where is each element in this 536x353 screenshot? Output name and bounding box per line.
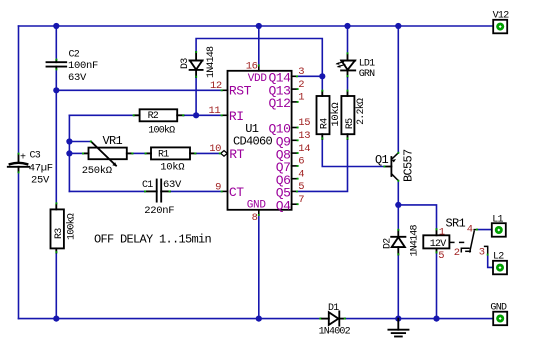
svg-text:4: 4: [467, 224, 473, 236]
wire VR1 wiper: [69, 141, 91, 143]
svg-text:L2: L2: [493, 251, 504, 262]
wire D3 top branch: [196, 39, 322, 77]
wire CT row right of C1: [170, 190, 222, 192]
wire relay contact 3 to L2: [488, 255, 493, 268]
svg-text:Q4: Q4: [276, 198, 291, 213]
wire top rail V12: [19, 25, 494, 27]
svg-text:1: 1: [439, 227, 445, 239]
junction dot VR1 wiper node: [66, 138, 72, 144]
svg-text:6: 6: [298, 156, 304, 168]
IC U1 right pin stubs: [292, 76, 298, 204]
wire D2 bottom to ground rail: [397, 255, 399, 319]
diode D3: [190, 52, 203, 77]
svg-text:2.2kΩ: 2.2kΩ: [355, 98, 367, 125]
wire VR1 left terminal: [69, 152, 83, 154]
capacitor C1: [145, 180, 170, 202]
svg-text:GND: GND: [247, 200, 267, 212]
wire C2 top lead: [55, 26, 57, 60]
svg-text:10kΩ: 10kΩ: [330, 103, 342, 127]
LED LD1 emission arrows: [335, 62, 344, 68]
svg-text:1N4002: 1N4002: [319, 327, 351, 338]
wire R4 top lead: [321, 76, 323, 91]
svg-text:VDD: VDD: [248, 73, 268, 85]
resistor R1: [146, 147, 196, 159]
wire RI row right of R2: [184, 114, 223, 116]
svg-text:LD1: LD1: [359, 58, 375, 69]
LED LD1: [341, 54, 355, 77]
svg-text:D1: D1: [328, 303, 339, 314]
wire R4 bottom to Q1 base: [322, 139, 384, 167]
wire D3 bottom to RI row: [195, 77, 197, 115]
resistor R5: [341, 91, 354, 139]
svg-text:1N4148: 1N4148: [409, 224, 420, 256]
svg-text:RI: RI: [229, 109, 244, 124]
green connection tick marks: [18, 51, 489, 320]
junction dot top rail C2: [53, 23, 59, 29]
svg-text:10kΩ: 10kΩ: [160, 162, 184, 174]
relay SR1 coil: [423, 229, 449, 252]
junction dot bottom rail pin8: [256, 316, 262, 322]
svg-text:V12: V12: [493, 10, 510, 21]
svg-text:D3: D3: [180, 58, 191, 69]
wire LED to R5: [347, 76, 349, 91]
IC U1 pin16 stub: [258, 66, 260, 71]
junction dot top rail Q1 emitter: [395, 23, 401, 29]
IC U1 RT pin inversion diamond: [221, 151, 228, 157]
svg-text:2: 2: [454, 247, 460, 259]
wire CT row left of C1: [69, 190, 145, 192]
svg-text:14: 14: [298, 143, 310, 155]
svg-text:3: 3: [479, 247, 485, 259]
junction dot top rail pin16: [256, 23, 262, 29]
wire bottom rail left segment: [19, 318, 322, 320]
potentiometer VR1: [83, 142, 133, 167]
svg-text:1N4148: 1N4148: [206, 46, 217, 78]
svg-text:+: +: [20, 152, 26, 163]
wire IC pin16 VDD to top rail: [258, 26, 260, 66]
svg-text:RT: RT: [229, 147, 244, 162]
junction dot bottom rail R3: [53, 316, 59, 322]
svg-text:R1: R1: [158, 150, 169, 161]
IC U1 left pin stubs: [222, 90, 228, 191]
svg-text:100nF: 100nF: [68, 60, 98, 72]
svg-text:25V: 25V: [31, 174, 50, 186]
resistor R3: [51, 204, 64, 253]
wire relay coil bottom to rail: [436, 253, 438, 319]
svg-text:11: 11: [208, 105, 220, 117]
svg-text:CT: CT: [229, 185, 244, 200]
svg-text:VR1: VR1: [103, 134, 123, 148]
svg-text:100kΩ: 100kΩ: [66, 213, 78, 240]
terminal GND: [490, 302, 507, 325]
transistor Q1 emitter arrow: [392, 159, 396, 162]
svg-text:12: 12: [210, 80, 222, 92]
junction dot Q1 collector node: [395, 202, 401, 208]
wire Q14 pin row: [297, 75, 323, 77]
wire RST row: [56, 89, 222, 91]
wire R1 to RT pin: [196, 152, 221, 154]
wire C2 bottom lead to RST node: [55, 69, 57, 91]
wire left border vertical lower (C3 to bottom rail): [18, 172, 20, 319]
svg-text:8: 8: [252, 212, 258, 224]
relay SR1 contact common pin 2: [461, 248, 469, 252]
svg-text:Q12: Q12: [268, 96, 290, 111]
wire node A vertical: [68, 115, 70, 191]
svg-text:1: 1: [298, 92, 304, 104]
terminal V12: [493, 10, 510, 33]
resistor R4: [317, 91, 330, 139]
junction dot Q14 R4: [319, 73, 325, 79]
wire LED top lead: [347, 26, 349, 54]
relay SR1 contact pin 3 stub: [485, 246, 489, 254]
svg-text:3: 3: [298, 66, 304, 78]
terminal L1: [492, 215, 506, 237]
svg-text:R5: R5: [345, 118, 356, 129]
svg-text:13: 13: [298, 130, 310, 142]
wire Q1 collector down: [397, 181, 399, 205]
svg-text:4: 4: [298, 168, 304, 180]
diode D2: [391, 230, 405, 255]
junction dot bottom rail relay: [433, 316, 439, 322]
ground symbol: [388, 319, 408, 337]
svg-text:C1: C1: [142, 180, 153, 191]
junction dot VR1 left node: [66, 150, 72, 156]
relay SR1 moving contact arm: [466, 230, 477, 252]
junction dot RI row D3: [193, 112, 199, 118]
svg-text:100kΩ: 100kΩ: [148, 124, 175, 136]
terminal L2: [493, 251, 507, 274]
svg-text:R3: R3: [54, 228, 65, 239]
IC U1 CD4060 box: [228, 71, 292, 210]
svg-text:5: 5: [298, 181, 304, 193]
svg-text:SR1: SR1: [446, 217, 466, 231]
wire R5 bottom to Q5 pin: [297, 139, 348, 191]
svg-text:15: 15: [298, 117, 310, 129]
relay SR1 mechanical link dashes: [449, 241, 463, 243]
junction dot RST node: [53, 87, 59, 93]
wire VR1 to R1: [133, 152, 146, 154]
wire D2 top lead: [397, 205, 399, 230]
svg-text:R2: R2: [148, 111, 159, 122]
junction dot bottom rail ground: [395, 316, 401, 322]
capacitor C3 (electrolytic): [8, 154, 29, 172]
svg-text:12V: 12V: [430, 239, 446, 250]
wire left border vertical upper (to C3): [18, 26, 20, 154]
svg-text:CD4060: CD4060: [233, 135, 273, 149]
svg-text:D2: D2: [382, 238, 393, 249]
svg-text:63V: 63V: [68, 72, 87, 84]
transistor Q1 BC557: [385, 157, 392, 176]
resistor R2: [134, 109, 184, 121]
svg-text:250kΩ: 250kΩ: [82, 165, 112, 177]
svg-text:220nF: 220nF: [144, 205, 174, 217]
svg-text:63V: 63V: [163, 179, 182, 191]
wire IC pin8 GND to bottom rail: [258, 215, 260, 319]
svg-text:7: 7: [298, 194, 304, 206]
svg-text:47µF: 47µF: [29, 162, 53, 174]
wire Q1 emitter to top rail: [397, 26, 399, 153]
svg-text:GRN: GRN: [359, 69, 375, 80]
wire R3 top: [55, 90, 57, 203]
diode D1: [321, 311, 345, 325]
svg-text:C2: C2: [69, 50, 80, 61]
wire relay contact 4 to L1: [477, 229, 492, 231]
junction dot top rail LED: [344, 23, 350, 29]
svg-text:BC557: BC557: [402, 149, 416, 182]
wire collector node to relay coil: [398, 205, 436, 229]
svg-text:9: 9: [215, 181, 221, 193]
svg-text:Q1: Q1: [375, 153, 389, 167]
svg-text:R4: R4: [319, 118, 330, 129]
svg-text:2: 2: [298, 79, 304, 91]
wire bottom rail right segment: [345, 318, 493, 320]
wire R3 bottom: [55, 253, 57, 319]
svg-text:16: 16: [246, 61, 258, 73]
svg-text:GND: GND: [490, 302, 507, 313]
IC U1 pin8 stub: [258, 210, 260, 215]
svg-text:C3: C3: [30, 151, 41, 162]
svg-text:RST: RST: [229, 84, 252, 99]
svg-text:OFF DELAY 1..15min: OFF DELAY 1..15min: [94, 233, 212, 247]
wire RI row left of R2: [69, 114, 134, 116]
svg-text:5: 5: [438, 250, 444, 262]
capacitor C2: [47, 60, 67, 69]
svg-text:L1: L1: [492, 215, 503, 226]
